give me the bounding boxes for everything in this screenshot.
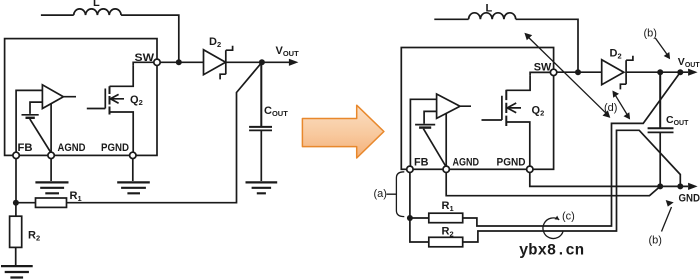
wire op-amp ground to AGND pin (left) (50, 104, 52, 153)
svg-text:AGND: AGND (58, 142, 86, 154)
svg-text:R2: R2 (442, 226, 454, 239)
wire AGND to GND node (right) (446, 172, 660, 195)
resistor R1 (left) (36, 198, 67, 207)
wire FB pin to divider node (right) (409, 172, 411, 218)
resistor R2 (left) (10, 216, 22, 247)
annotation short double arrow D2-to-sense (d) (615, 95, 627, 115)
wire input to inductor (left) (41, 14, 74, 16)
wire node to R2 (right) (410, 218, 429, 242)
wire R1 to VOUT sense (right) (463, 72, 681, 226)
ground AGND (left) (35, 182, 68, 193)
annotation loop (c) (543, 218, 563, 239)
IC box (right) (401, 48, 553, 170)
svg-text:L: L (486, 3, 493, 15)
transistor Q2 (left) (87, 89, 106, 109)
wire SW to Q2 drain (right) (530, 72, 550, 75)
wire FB pin to divider node (left) (15, 159, 17, 203)
wire R2 to GND sense (right) (463, 130, 681, 242)
VOUT arrow head (left) (289, 59, 299, 66)
VOUT arrow head (right) (688, 69, 698, 76)
wire R2 to ground (left) (15, 247, 17, 265)
svg-text:VOUT: VOUT (678, 56, 700, 69)
pin AGND (right) (443, 166, 449, 172)
wire FB to op-amp + input (left) (16, 90, 42, 152)
svg-text:FB: FB (414, 157, 429, 169)
wire FB to op-amp + input (right) (410, 99, 437, 166)
pin SW (left) (154, 59, 160, 65)
wire op-amp - input to reference (right) (424, 111, 437, 123)
node FB divider junction (left) (13, 200, 19, 206)
resistor R2 (right) (429, 237, 463, 247)
svg-text:Q2: Q2 (130, 94, 143, 107)
reference battery (right) (415, 124, 435, 126)
op-amp U1 (left) (42, 85, 76, 109)
wire SW pin to D2 anode (right) (557, 71, 602, 73)
svg-text:PGND: PGND (101, 142, 129, 154)
wire D2 cathode to VOUT (right) (626, 71, 688, 73)
resistor R1 (right) (429, 213, 463, 223)
wire VOUT sense to R1 (left) (67, 62, 262, 202)
pin PGND (left) (130, 152, 136, 158)
wire node to R1 (left) (16, 202, 36, 204)
ground R2 (left) (1, 266, 33, 277)
capacitor COUT (right) (648, 72, 674, 128)
pin FB (left) (13, 152, 19, 158)
transistor Q2 (right) (482, 96, 502, 120)
wire battery to AGND pin (right) (423, 129, 446, 167)
svg-text:R2: R2 (28, 230, 40, 243)
wire node to R1 (right) (410, 217, 429, 219)
svg-text:COUT: COUT (666, 114, 689, 127)
wire SW pin to D2 anode (left) (160, 61, 203, 63)
svg-text:R1: R1 (70, 190, 82, 203)
block arrow (302, 105, 384, 158)
svg-text:AGND: AGND (453, 157, 480, 169)
svg-text:VOUT: VOUT (276, 45, 300, 58)
wire op-amp ground to AGND pin (right) (445, 114, 447, 167)
ground COUT (left) (246, 182, 278, 193)
inductor L (right) (469, 13, 516, 20)
svg-text:(b): (b) (649, 235, 662, 247)
svg-text:SW: SW (534, 62, 552, 74)
Q2 body arrow (left) (110, 94, 118, 103)
svg-text:ybx8.cn: ybx8.cn (519, 242, 584, 260)
svg-text:GND: GND (679, 193, 700, 205)
node GND junction 2 (right) (677, 183, 683, 189)
annotation arrow (b) top (655, 38, 667, 55)
pin AGND (left) (48, 152, 54, 158)
wire PGND to ground (left) (132, 159, 134, 182)
wire node to R2 (left) (15, 203, 17, 217)
Q2 body arrow (right) (507, 103, 516, 113)
node inductor-diode junction (right) (575, 69, 581, 75)
wire D2 cathode to VOUT (left) (226, 61, 290, 63)
wire inductor to SW node (right) (516, 19, 578, 72)
svg-text:D2: D2 (209, 36, 221, 49)
pin PGND (right) (527, 166, 533, 172)
IC box (left) (5, 39, 157, 156)
node VOUT junction 1 (right) (657, 69, 663, 75)
svg-text:R1: R1 (442, 200, 454, 213)
node FB divider junction (right) (407, 215, 413, 221)
inductor L (left) (74, 9, 121, 15)
wire battery to AGND pin (left) (30, 119, 51, 153)
svg-text:FB: FB (18, 142, 33, 154)
svg-text:COUT: COUT (264, 105, 288, 118)
ground PGND (left) (117, 182, 150, 193)
svg-text:(d): (d) (604, 102, 617, 114)
wire AGND to ground (left) (50, 159, 52, 182)
node VOUT junction 2 (right) (677, 69, 683, 75)
reference battery (left) (22, 114, 39, 116)
wire PGND to GND rail (right) (530, 172, 688, 186)
node GND junction 1 (right) (657, 183, 663, 189)
pin SW (right) (550, 69, 556, 75)
pin FB (right) (407, 166, 413, 172)
wire SW to Q2 drain (left) (133, 62, 154, 65)
annotation bracket (a) (387, 172, 405, 217)
svg-text:(c): (c) (562, 211, 575, 223)
schottky diode D2 (right) (602, 56, 633, 90)
svg-text:Q2: Q2 (532, 105, 545, 118)
wire input to inductor (right) (434, 18, 468, 20)
GND arrow head (right) (688, 183, 698, 190)
svg-text:(b): (b) (644, 27, 657, 39)
schottky diode D2 (left) (204, 46, 233, 80)
node VOUT junction (left) (259, 59, 265, 65)
wire inductor to SW node (left) (121, 15, 179, 62)
op-amp U1 (right) (437, 94, 471, 118)
node inductor-diode junction (left) (176, 59, 182, 65)
annotation arrow (b) bottom (662, 207, 672, 232)
wire op-amp - input to reference (left) (30, 102, 42, 114)
svg-text:D2: D2 (610, 48, 622, 61)
annotation loop (c) arrow head (555, 216, 560, 220)
svg-text:SW: SW (135, 52, 155, 64)
svg-text:(a): (a) (374, 188, 387, 200)
svg-text:PGND: PGND (497, 157, 526, 169)
annotation long double arrow SW-to-sense (d) (529, 38, 607, 114)
svg-text:L: L (93, 0, 100, 9)
capacitor COUT (left) (249, 62, 272, 127)
